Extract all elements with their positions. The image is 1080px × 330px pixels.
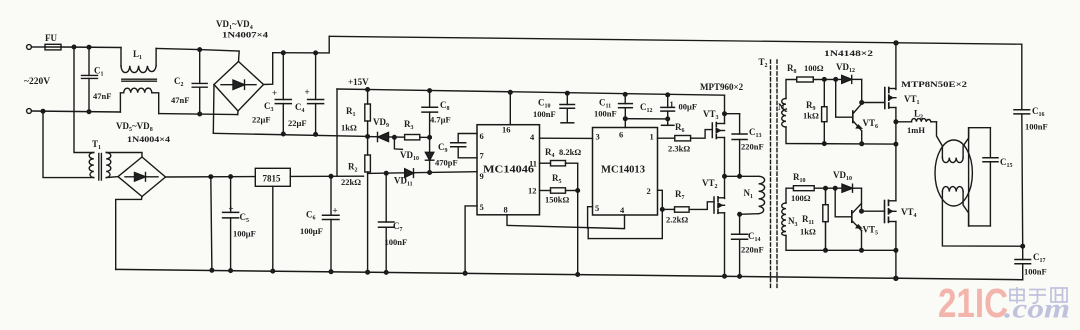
resistor R5 bbox=[540, 173, 578, 205]
node: C3 top bbox=[282, 51, 286, 55]
svg-text:100Ω: 100Ω bbox=[791, 193, 811, 203]
wire: bridge2 DC+ to 7815 bbox=[166, 176, 256, 178]
svg-text:16: 16 bbox=[502, 125, 511, 135]
node: C16/C17 midpoint bbox=[1021, 244, 1025, 248]
wire: T1 secondary bottom to bridge2 bbox=[106, 177, 118, 178]
svg-text:00μF: 00μF bbox=[679, 102, 698, 112]
svg-text:100nF: 100nF bbox=[594, 109, 617, 119]
wire: C11-C12 bottom link bbox=[625, 118, 667, 120]
resistor R2 bbox=[341, 137, 370, 273]
wire: +15V rail bbox=[337, 89, 725, 95]
wire: top filament to C15 branch bbox=[963, 128, 969, 158]
node: C4 bottom bbox=[314, 133, 318, 137]
node: C12 rail junction bbox=[666, 93, 670, 97]
winding N1 bbox=[740, 176, 765, 214]
node: VT6 base tap bbox=[834, 78, 838, 82]
filament top coil bbox=[942, 158, 963, 163]
wire: neutral line to bridge bottom bbox=[159, 114, 238, 115]
svg-text:1kΩ: 1kΩ bbox=[803, 111, 819, 121]
capacitor C6 bbox=[300, 176, 339, 271]
node: R7 tap on pin2 net bbox=[661, 208, 665, 212]
svg-text:8.2kΩ: 8.2kΩ bbox=[559, 147, 581, 157]
op-amp U2 MC14013 bbox=[593, 128, 658, 216]
svg-text:8: 8 bbox=[504, 205, 508, 215]
svg-text:+: + bbox=[229, 204, 234, 214]
resistor R3 bbox=[404, 119, 430, 140]
capacitor C9 bbox=[435, 134, 477, 168]
node: C7 ground bbox=[384, 271, 388, 275]
wire: DC+ line to C3 C4 bbox=[273, 36, 330, 53]
wire: DC- line to bias node bbox=[213, 133, 367, 136]
svg-text:+15V: +15V bbox=[348, 77, 369, 87]
svg-text:22kΩ: 22kΩ bbox=[341, 177, 361, 187]
bridge rectifier VD1-VD4 bbox=[214, 62, 264, 115]
svg-text:MC14046: MC14046 bbox=[483, 165, 534, 176]
wire: bridge1 DC- riser bbox=[212, 85, 215, 134]
svg-text:FU: FU bbox=[45, 33, 57, 43]
capacitor C14 bbox=[732, 214, 764, 276]
diode VD11 bbox=[394, 169, 414, 188]
node: C8 top on rail bbox=[428, 89, 432, 93]
resistor R4 bbox=[540, 147, 582, 166]
capacitor C15 bbox=[969, 128, 1013, 226]
node: live/T1 junction bbox=[72, 45, 76, 49]
svg-text:1: 1 bbox=[650, 132, 654, 142]
wire: C15 branch frame bbox=[969, 128, 991, 226]
diode VD10 bbox=[425, 137, 433, 173]
svg-text:1N4007×4: 1N4007×4 bbox=[222, 30, 269, 40]
svg-text:+: + bbox=[333, 206, 338, 216]
node: pin5 ground bbox=[463, 272, 467, 276]
wire: VD13 to VT4 gate bbox=[862, 188, 885, 211]
svg-text:2.3kΩ: 2.3kΩ bbox=[668, 144, 690, 154]
node: common to midpoint bbox=[894, 142, 898, 146]
wire: main HV top rail bbox=[329, 36, 1022, 44]
svg-text:100μF: 100μF bbox=[233, 229, 256, 239]
wire: N2 top to R8 bbox=[786, 80, 797, 99]
resistor R7 bbox=[662, 189, 714, 225]
svg-text:1N4004×4: 1N4004×4 bbox=[127, 134, 171, 144]
diode VD13 bbox=[833, 170, 862, 192]
transistor Q VT3 bbox=[712, 123, 724, 139]
capacitor C17 bbox=[1015, 246, 1047, 280]
wire: branch to U2 pin5 bbox=[588, 207, 593, 228]
node: C3 bottom bbox=[282, 132, 286, 136]
wire: T1 primary bottom feed bbox=[43, 111, 94, 177]
svg-text:MC14013: MC14013 bbox=[601, 165, 645, 176]
svg-text:2.2kΩ: 2.2kΩ bbox=[666, 215, 688, 225]
diode VD12 bbox=[836, 62, 862, 83]
resistor R6 bbox=[658, 122, 713, 154]
svg-text:2: 2 bbox=[647, 186, 651, 196]
svg-text:220nF: 220nF bbox=[741, 245, 764, 255]
svg-text:47nF: 47nF bbox=[93, 91, 111, 101]
node: neutral/T1 junction bbox=[41, 109, 45, 113]
wire: U1 pin16 to +15V rail bbox=[509, 92, 511, 124]
wire: tap to ground rail bbox=[211, 177, 212, 271]
wire: VD12 to VT1 gate bbox=[862, 79, 885, 102]
svg-text:11: 11 bbox=[529, 159, 537, 169]
node: C6 top bbox=[329, 175, 333, 179]
node: lower common to source column bbox=[894, 249, 898, 253]
svg-text:3: 3 bbox=[596, 132, 600, 142]
svg-text:+: + bbox=[305, 87, 310, 97]
svg-text:5: 5 bbox=[595, 203, 599, 213]
node: C6 ground bbox=[329, 270, 333, 274]
node: C14 ground bbox=[738, 275, 742, 279]
node: VT4 source ground bbox=[894, 276, 898, 280]
svg-text:MTP8N50E×2: MTP8N50E×2 bbox=[901, 79, 967, 89]
capacitor C5 bbox=[223, 177, 256, 271]
svg-text:4.7μF: 4.7μF bbox=[430, 115, 451, 125]
node: R11 bottom bbox=[824, 249, 828, 253]
svg-text:1: 1 bbox=[670, 99, 674, 109]
svg-text:6: 6 bbox=[480, 131, 484, 141]
wire: VT3 source to VT2 drain bbox=[724, 138, 726, 199]
node: C2 bottom junction bbox=[198, 112, 202, 116]
capacitor C1 bbox=[82, 47, 112, 111]
node: half-bridge midpoint bbox=[723, 175, 727, 179]
svg-text:9: 9 bbox=[480, 171, 484, 181]
svg-text:100nF: 100nF bbox=[1024, 267, 1047, 277]
wire: VT2 source to ground bbox=[724, 213, 726, 276]
wire: upper cell common line bbox=[786, 127, 896, 144]
wire: +15V riser bbox=[336, 89, 338, 176]
wire: T1 secondary top to bridge2 bbox=[106, 153, 142, 158]
winding N2 bbox=[778, 99, 788, 127]
svg-text:21IC: 21IC bbox=[938, 280, 1008, 326]
svg-text:12: 12 bbox=[528, 186, 537, 196]
node: VT5 emitter common bbox=[860, 249, 864, 253]
wire: bottom filament return bbox=[942, 192, 1022, 247]
wire: rail corner to VT3 drain bbox=[724, 95, 726, 123]
svg-text:100nF: 100nF bbox=[1025, 122, 1048, 132]
transistor Q VT2 bbox=[714, 197, 725, 214]
capacitor C10 bbox=[533, 93, 575, 123]
svg-text:7815: 7815 bbox=[263, 174, 282, 184]
svg-text:47nF: 47nF bbox=[171, 95, 189, 105]
wire: top rail to VT1 drain bbox=[895, 43, 897, 90]
wire: midpoint link bbox=[725, 175, 740, 177]
node: VD9/R3 junction bbox=[393, 136, 397, 140]
wire: leader to VD10 label bbox=[394, 137, 402, 149]
node: VT6 emitter common bbox=[860, 142, 864, 146]
wire: VT4 source to ground bbox=[895, 222, 897, 279]
bridge rectifier VD5-VD8 bbox=[118, 157, 166, 197]
svg-text:100nF: 100nF bbox=[385, 237, 408, 247]
transformer T1 bbox=[89, 153, 111, 181]
wire: bridge2 DC- to ground rail bbox=[116, 197, 142, 270]
inductor L1 (common-mode choke) bbox=[120, 48, 158, 114]
wire: bottom filament to C15 frame bbox=[963, 192, 969, 226]
node: C8/VD10 junction bbox=[428, 136, 432, 140]
wire: T1 primary top feed bbox=[74, 47, 94, 153]
watermark dianziwang characters bbox=[1010, 287, 1067, 304]
svg-text:150kΩ: 150kΩ bbox=[545, 195, 569, 205]
capacitor C4 bbox=[288, 53, 324, 134]
node: top rail / VT1 drain bbox=[894, 41, 898, 45]
inductor L2 1mH bbox=[896, 109, 937, 136]
lamp tube envelope bbox=[935, 140, 972, 206]
wire: L2 to top filament bbox=[937, 122, 943, 158]
node: C13/N1 junction bbox=[738, 175, 742, 179]
wire: bridge1 DC+ riser bbox=[264, 53, 273, 85]
wire: VT1 source to midpoint node bbox=[895, 108, 897, 201]
node: bias node A bbox=[366, 135, 370, 139]
node: R2 ground bbox=[366, 270, 370, 274]
node: L2 tap bbox=[894, 120, 898, 124]
op-amp U1 MC14046 bbox=[477, 125, 540, 215]
svg-text:22μF: 22μF bbox=[288, 118, 307, 128]
wire: R4 R5 ground vertical bbox=[577, 163, 579, 274]
node: neutral/C1 junction bbox=[87, 110, 91, 114]
svg-text:1kΩ: 1kΩ bbox=[800, 227, 816, 237]
svg-text:1kΩ: 1kΩ bbox=[341, 123, 357, 133]
svg-text:220nF: 220nF bbox=[741, 142, 764, 152]
node: tap ground bbox=[210, 269, 214, 273]
capacitor C2 bbox=[171, 50, 207, 114]
svg-text:MPT960×2: MPT960×2 bbox=[700, 82, 744, 92]
terminal N bbox=[27, 109, 32, 114]
transistor Q VT1 bbox=[885, 88, 896, 109]
diode VD9 bbox=[368, 117, 405, 142]
resistor R10 bbox=[791, 172, 842, 203]
node: C5 top bbox=[229, 175, 233, 179]
resistor R1 bbox=[341, 90, 370, 137]
transistor Q VT4 bbox=[885, 200, 896, 222]
fuse FU bbox=[31, 33, 61, 50]
wire: live top line FU to L1 bbox=[61, 46, 121, 49]
svg-text:22μF: 22μF bbox=[252, 115, 271, 125]
node: C12 bottom junction bbox=[666, 117, 670, 121]
node: VT2 source ground bbox=[723, 274, 727, 278]
node: C2 top junction bbox=[198, 48, 202, 52]
regulator 7815 bbox=[255, 168, 290, 186]
wire: VD11 line to pin9 bbox=[368, 172, 477, 174]
node: VD10 bottom junction bbox=[428, 171, 432, 175]
wire: 7815 ground lead bbox=[272, 186, 274, 271]
capacitor C3 bbox=[252, 53, 291, 134]
wire: branch link down bbox=[587, 228, 589, 239]
resistor R11 bbox=[800, 188, 828, 250]
svg-text:1N4148×2: 1N4148×2 bbox=[824, 48, 873, 58]
transistor Q VT6 bbox=[836, 79, 878, 143]
svg-text:6: 6 bbox=[619, 130, 623, 140]
node: R5 right bbox=[576, 189, 580, 193]
node: C7 junction bbox=[384, 171, 388, 175]
transistor Q VT5 bbox=[835, 188, 878, 250]
capacitor C7 bbox=[379, 173, 408, 272]
svg-text:100μF: 100μF bbox=[300, 226, 323, 236]
node: R9 top bbox=[823, 78, 827, 82]
node: DC line tap bbox=[209, 175, 213, 179]
wire: lower cell common line bbox=[786, 236, 896, 251]
node: VT5 collector / gate junction bbox=[860, 209, 864, 213]
capacitor C12 bbox=[640, 95, 697, 125]
node: C10 rail junction bbox=[566, 91, 570, 95]
wire: main ground rail bbox=[116, 269, 1023, 279]
node: live/C1 junction bbox=[87, 45, 91, 49]
svg-text:470pF: 470pF bbox=[435, 158, 458, 168]
node: N1 bottom / C14 junction bbox=[738, 213, 742, 217]
wire: 7815 output bbox=[290, 175, 363, 177]
node: 7815 ground bbox=[271, 269, 275, 273]
node: VT6 collector / gate junction bbox=[860, 101, 864, 105]
wire: U1 pin5 to ground bbox=[465, 206, 477, 274]
terminal L bbox=[27, 45, 32, 50]
node: VT3 drain / C13 tap bbox=[723, 112, 727, 116]
capacitor C11 bbox=[594, 94, 632, 127]
node: R1 top on +15V rail bbox=[366, 88, 370, 92]
svg-text:+: + bbox=[272, 88, 277, 98]
wire: live line L1 to bridge top bbox=[156, 48, 239, 61]
capacitor C16 bbox=[1014, 44, 1048, 246]
node: R9 bottom bbox=[823, 142, 827, 146]
resistor R8 bbox=[787, 63, 842, 82]
capacitor C13 bbox=[732, 114, 764, 177]
node: C5 ground bbox=[229, 269, 233, 273]
winding N3 bbox=[782, 203, 798, 235]
svg-text:5: 5 bbox=[480, 202, 484, 212]
node: VT5 base tap bbox=[833, 186, 837, 190]
node: C4 top bbox=[314, 51, 318, 55]
wire: neutral bottom line bbox=[31, 111, 120, 112]
svg-text:100Ω: 100Ω bbox=[804, 63, 824, 73]
filament bottom coil bbox=[942, 187, 963, 192]
node: C11 rail junction bbox=[623, 93, 627, 97]
node: pin16 rail junction bbox=[509, 91, 513, 95]
wire: link line to U2 pin2 net bbox=[588, 190, 662, 238]
resistor R9 bbox=[803, 79, 827, 143]
node: R4R5 ground bbox=[576, 273, 580, 277]
wire: C13 top link bbox=[725, 113, 740, 115]
svg-text:100nF: 100nF bbox=[533, 109, 556, 119]
wire: N3 top to R10 bbox=[786, 188, 793, 203]
wire: U1 pin8 to U2 pins 5,4 bbox=[507, 215, 625, 229]
svg-text:1mH: 1mH bbox=[907, 125, 925, 135]
transformer T2 core dashed lines bbox=[771, 60, 778, 288]
node: C11 bottom junction bbox=[624, 117, 628, 121]
node: R11 top bbox=[824, 186, 828, 190]
svg-text:~220V: ~220V bbox=[24, 77, 50, 87]
capacitor C8 bbox=[422, 91, 451, 138]
wire: U1 pin4 to U2 pin3 bbox=[540, 137, 593, 139]
